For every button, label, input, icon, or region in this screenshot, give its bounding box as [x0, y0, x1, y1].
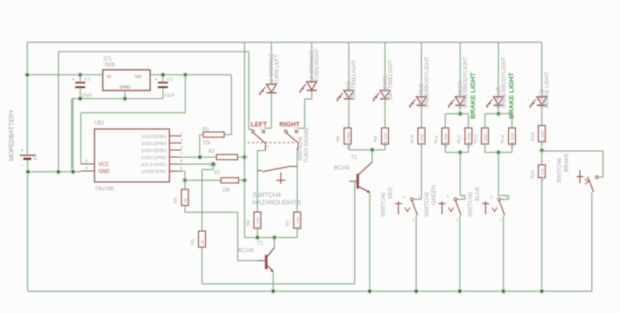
svg-text:R7: R7: [285, 220, 290, 226]
svg-text:6V: 6V: [33, 153, 39, 160]
svg-text:10k: 10k: [222, 187, 231, 193]
svg-text:UNDERBODYLIGHT: UNDERBODYLIGHT: [424, 56, 430, 108]
svg-text:R13: R13: [473, 134, 478, 143]
svg-text:GND: GND: [99, 169, 111, 175]
svg-text:12 5W: 12 5W: [540, 130, 545, 144]
svg-text:HAZARDLIGHTS: HAZARDLIGHTS: [253, 200, 302, 207]
svg-text:BRAKE LIGHT: BRAKE LIGHT: [508, 72, 515, 119]
svg-text:1k: 1k: [200, 239, 205, 245]
svg-text:1: 1: [505, 195, 507, 199]
svg-text:R4: R4: [173, 197, 178, 203]
svg-text:(ADC3)PB3: (ADC3)PB3: [141, 148, 166, 154]
svg-text:2: 2: [267, 145, 269, 149]
svg-text:1: 1: [418, 195, 420, 199]
svg-text:5.6 5W: 5.6 5W: [510, 132, 515, 147]
svg-text:+: +: [21, 148, 24, 153]
svg-text:DAYTIMELIGHT: DAYTIMELIGHT: [352, 59, 358, 100]
svg-text:5.3 5W: 5.3 5W: [444, 132, 449, 147]
svg-text:R14: R14: [500, 134, 505, 143]
svg-text:8 5W: 8 5W: [420, 133, 425, 144]
svg-text:R10: R10: [409, 134, 414, 143]
svg-text:BRAKE LIGHT: BRAKE LIGHT: [545, 71, 551, 108]
svg-text:T2: T2: [351, 155, 357, 161]
svg-text:TURN LEFT: TURN LEFT: [274, 54, 280, 85]
svg-text:12 2W: 12 2W: [295, 216, 300, 230]
svg-text:2: 2: [456, 219, 458, 223]
svg-text:BC140: BC140: [238, 248, 254, 254]
svg-text:UNDERBODYLIGHT: UNDERBODYLIGHT: [463, 56, 469, 108]
svg-text:R16: R16: [530, 170, 535, 179]
svg-text:VI: VI: [107, 74, 112, 80]
svg-text:R9: R9: [373, 136, 378, 142]
svg-text:3: 3: [447, 195, 449, 199]
svg-text:BRAKE LIGHT: BRAKE LIGHT: [470, 72, 477, 119]
svg-text:R15: R15: [530, 132, 535, 141]
svg-text:2: 2: [500, 219, 502, 223]
svg-text:UNDERBODYLIGHT: UNDERBODYLIGHT: [501, 56, 507, 108]
svg-text:RIGHT: RIGHT: [279, 122, 299, 129]
svg-text:5 5W: 5 5W: [483, 133, 488, 144]
svg-text:5.6 5W: 5.6 5W: [467, 132, 472, 147]
svg-text:R12: R12: [456, 134, 461, 143]
svg-text:GND: GND: [120, 84, 131, 90]
svg-text:3: 3: [260, 127, 262, 131]
svg-text:IC1: IC1: [104, 56, 112, 62]
svg-text:3: 3: [490, 195, 492, 199]
svg-text:(ADC1)PB2: (ADC1)PB2: [141, 155, 166, 161]
svg-text:1: 1: [462, 195, 464, 199]
svg-text:7805: 7805: [104, 63, 116, 69]
svg-text:10k: 10k: [203, 140, 212, 146]
svg-text:R11: R11: [433, 135, 438, 144]
svg-text:C1: C1: [84, 77, 90, 83]
svg-text:+: +: [72, 77, 75, 82]
svg-text:C2: C2: [167, 77, 173, 83]
svg-text:(ADC0)PB5: (ADC0)PB5: [141, 134, 166, 140]
svg-text:SWITCH2: SWITCH2: [425, 192, 431, 217]
svg-text:SWITCH1: SWITCH1: [381, 192, 387, 217]
svg-text:1: 1: [250, 127, 252, 131]
svg-text:DAYTIMELIGHT: DAYTIMELIGHT: [388, 59, 394, 100]
svg-text:10µF: 10µF: [164, 93, 175, 99]
svg-text:18 1W: 18 1W: [383, 132, 388, 146]
svg-text:U$1: U$1: [95, 121, 105, 127]
svg-text:GREEN: GREEN: [432, 185, 438, 205]
svg-text:BLUE: BLUE: [475, 186, 481, 201]
svg-text:+: +: [155, 77, 158, 82]
svg-text:SWITCH3: SWITCH3: [468, 192, 474, 217]
svg-text:T1: T1: [257, 241, 263, 247]
svg-text:(OC1A)PB1: (OC1A)PB1: [141, 162, 167, 168]
svg-text:(AREF)PB0: (AREF)PB0: [141, 169, 166, 175]
svg-text:VO: VO: [135, 74, 142, 80]
svg-text:VCC: VCC: [99, 162, 110, 168]
svg-text:TINY85: TINY85: [95, 187, 115, 193]
svg-text:1k: 1k: [183, 198, 188, 204]
svg-text:TURN SIGNAL: TURN SIGNAL: [304, 127, 310, 163]
svg-text:12 2W: 12 2W: [256, 216, 261, 230]
svg-text:R5: R5: [190, 239, 195, 245]
svg-text:(ADC2)PB4: (ADC2)PB4: [141, 141, 166, 147]
svg-text:BRAKE: BRAKE: [564, 153, 570, 172]
svg-text:R2: R2: [209, 149, 216, 155]
svg-text:MOPEDBATTERY: MOPEDBATTERY: [9, 109, 16, 161]
svg-text:2: 2: [412, 219, 414, 223]
svg-text:SWITCH6: SWITCH6: [557, 158, 563, 183]
svg-text:R6: R6: [245, 220, 250, 226]
svg-text:TURN RIGHT: TURN RIGHT: [315, 47, 321, 82]
svg-text:BC140: BC140: [334, 165, 350, 171]
svg-text:47 1W: 47 1W: [540, 167, 545, 181]
svg-text:R8: R8: [336, 136, 341, 142]
svg-text:R1: R1: [214, 170, 221, 176]
svg-text:RED: RED: [388, 187, 394, 199]
svg-text:R3: R3: [203, 127, 210, 133]
svg-text:SWITCH4: SWITCH4: [253, 192, 282, 199]
svg-text:3: 3: [403, 195, 405, 199]
